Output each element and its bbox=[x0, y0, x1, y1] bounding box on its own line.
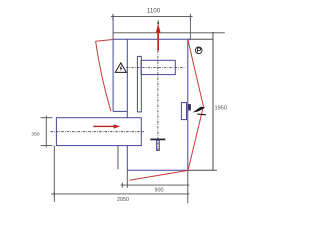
machine hood top edge bbox=[113, 38, 190, 40]
svg-text:1950: 1950 bbox=[215, 106, 227, 112]
machine inner wall lower bbox=[126, 146, 128, 171]
support leg bbox=[117, 146, 119, 170]
svg-text:900: 900 bbox=[155, 187, 164, 193]
machine left edge bbox=[112, 39, 114, 111]
machine bottom edge bbox=[127, 169, 188, 171]
svg-text:2050: 2050 bbox=[117, 197, 129, 203]
dimension 1100 line bbox=[111, 14, 193, 21]
dimension 2050 line bbox=[51, 191, 190, 196]
pedal P circle bbox=[195, 47, 202, 54]
red swing arc upper bbox=[188, 39, 204, 106]
clamp stem bbox=[157, 140, 160, 150]
clamp crossbar bbox=[150, 138, 165, 140]
dimension 1950 line bbox=[212, 32, 214, 170]
red right arrow bbox=[93, 124, 120, 128]
red floor diagonal bbox=[130, 170, 189, 180]
dimension 900 line bbox=[121, 183, 190, 188]
conveyor centerline bbox=[51, 131, 145, 133]
work head block bbox=[141, 60, 175, 74]
svg-text:350: 350 bbox=[31, 132, 39, 138]
dimension 350 bbox=[41, 116, 53, 148]
hand icon bbox=[193, 107, 206, 116]
floor line gray bbox=[188, 169, 217, 171]
top edge extension to 1950 bbox=[188, 38, 213, 40]
machine right edge bbox=[187, 39, 189, 170]
red swing arc lower bbox=[188, 106, 203, 170]
vertical centerline bbox=[157, 51, 159, 152]
extension line left 2050 bbox=[53, 146, 55, 202]
infeed sill bbox=[113, 110, 127, 112]
head horizontal centerline bbox=[126, 67, 186, 69]
conveyor body bbox=[56, 118, 141, 146]
control box bbox=[181, 103, 186, 120]
warning triangle bbox=[115, 63, 126, 73]
extension line left of 1100 / machine edge upper bbox=[112, 15, 114, 40]
red door open left edge bbox=[96, 41, 111, 111]
red door open top edge bbox=[96, 40, 114, 42]
raised-hood level line bbox=[113, 32, 225, 34]
machine inner wall upper bbox=[126, 39, 128, 117]
red up arrow bbox=[156, 19, 161, 50]
svg-text:1100: 1100 bbox=[147, 7, 161, 14]
control box handle bbox=[188, 104, 191, 110]
extension line right of 1100 bbox=[189, 15, 191, 40]
extension line 900 left bbox=[126, 170, 128, 188]
tool slide bar bbox=[137, 56, 141, 112]
extension line right below machine bbox=[187, 170, 189, 203]
